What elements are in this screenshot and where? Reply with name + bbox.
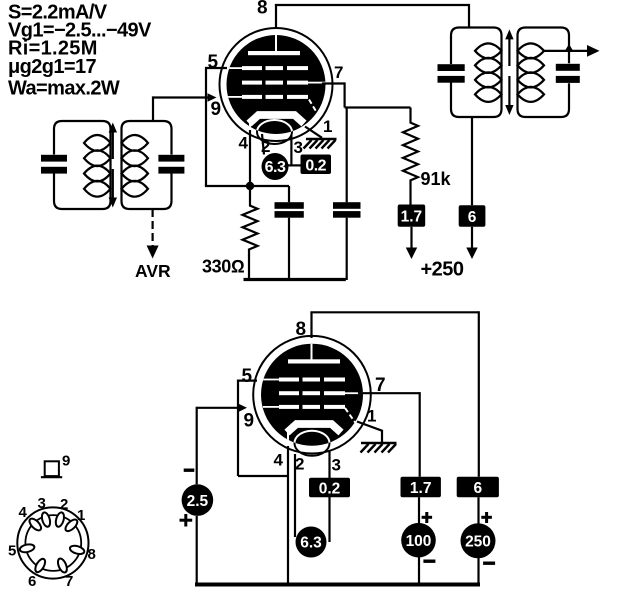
battery circle 250 [461, 523, 496, 558]
T1 tuning arrow shafts [112, 130, 114, 159]
node junction dot [246, 182, 254, 190]
wire node row to cathode junction [205, 185, 289, 187]
wire AVR dashed lead [152, 209, 154, 246]
V1 electrode disc [227, 35, 326, 134]
heater current box 0.2 (top) [301, 155, 332, 175]
wire screen supply down to 1.7 box [419, 392, 421, 477]
T1 secondary loop [122, 121, 172, 209]
svg-text:6: 6 [468, 209, 477, 226]
wire pin9 V1 from T1 tap [153, 96, 211, 98]
svg-text:6.3: 6.3 [265, 159, 286, 176]
svg-text:μg2g1=17: μg2g1=17 [8, 56, 97, 78]
svg-text:4: 4 [19, 504, 28, 521]
base pin 8 [69, 544, 85, 555]
V2 electrode disc [261, 344, 363, 446]
plus above 100 [422, 512, 433, 523]
wire pin5 vertical down [237, 380, 239, 477]
wire pin2 V2 down to 6.3 [294, 454, 296, 537]
T1 secondary capacitor plates [158, 155, 184, 162]
wire pin3 V1 down [290, 135, 292, 165]
svg-text:0.2: 0.2 [319, 480, 341, 497]
wire down into T2 primary top [468, 4, 470, 29]
wire pin8 V2 up [310, 312, 312, 338]
svg-text:0.2: 0.2 [305, 158, 326, 175]
tube base inner circle [25, 515, 81, 571]
V2 anode bar [288, 359, 340, 363]
wire T2 bottom to 6 box [471, 116, 473, 205]
V1 anode bar [248, 51, 300, 55]
V1 pin 1 lead inside (white dashes) [309, 100, 323, 124]
svg-text:1: 1 [323, 117, 332, 136]
T1 tuning arrowheads [109, 123, 117, 133]
svg-text:2: 2 [295, 455, 304, 474]
svg-text:2: 2 [60, 496, 68, 513]
T2 primary winding loops [475, 43, 502, 58]
svg-text:4: 4 [239, 134, 249, 153]
T2 output arrowhead [587, 45, 600, 57]
svg-text:3: 3 [294, 138, 303, 157]
pentode tube V1 (top) envelope [220, 28, 333, 141]
T1 primary loop [54, 121, 111, 209]
svg-text:1.7: 1.7 [401, 209, 423, 226]
wire C2 bottom lead [346, 218, 348, 280]
minus below 100 [423, 560, 435, 563]
V1 cathode [249, 115, 304, 124]
wire pin5 vertical down [205, 67, 207, 186]
svg-text:6: 6 [473, 480, 482, 497]
V2 grid row 1 dashes [279, 378, 299, 382]
svg-text:2.5: 2.5 [187, 493, 209, 510]
V2 anode stem [311, 343, 313, 361]
svg-text:8: 8 [296, 319, 307, 340]
base pin 4 [27, 517, 43, 533]
svg-text:+250: +250 [421, 259, 464, 281]
wire T2 output tap [544, 50, 591, 52]
node T2 tap junction [565, 44, 574, 52]
minus below 250 [483, 562, 495, 565]
wire pin9 arrowhead V2 [238, 404, 247, 413]
wire pin9 arrowhead [208, 93, 217, 102]
base pin 1 [19, 511, 85, 573]
minus above 2.5 [184, 469, 195, 472]
svg-text:7: 7 [65, 573, 73, 590]
T1 primary winding loops [84, 135, 111, 151]
transformer T2 (IF output, top right) [451, 28, 569, 118]
arrow below 1.7 box [410, 227, 412, 249]
base pin 7 [56, 557, 69, 574]
wire 1.7 box to 100 [418, 497, 420, 524]
V2 heater circle white inside part [295, 431, 330, 456]
voltage box 6 (top) [459, 205, 486, 227]
svg-text:1: 1 [77, 507, 85, 524]
wire 6.3 oval to 0.2 box [288, 164, 301, 166]
base pin 6 [33, 557, 47, 574]
svg-text:100: 100 [406, 533, 432, 550]
wire pin5 bottom horizontal to pin4 [238, 475, 288, 477]
V1 heater circle black outside part [257, 120, 292, 144]
svg-text:4: 4 [274, 451, 284, 470]
T2 tuning arrow shafts [508, 37, 510, 66]
wire 330 ohm bottom lead [248, 255, 250, 280]
wire T1 secondary top tap up to pin9 [152, 96, 154, 122]
voltage box 6 (bottom) [457, 477, 499, 497]
svg-text:1: 1 [367, 407, 376, 426]
wire pin9 V2 horizontal [197, 407, 238, 409]
AVR arrowhead [147, 246, 159, 259]
V1 grid row 3 stub to pin 9 [228, 96, 242, 98]
svg-text:9: 9 [244, 411, 255, 432]
svg-text:9: 9 [211, 99, 222, 120]
svg-text:1.7: 1.7 [410, 480, 432, 497]
wire pin8 V2 horizontal to right [310, 311, 478, 313]
wire pin5 V2 horizontal [238, 380, 257, 382]
svg-text:Wa=max.2W: Wa=max.2W [8, 78, 120, 100]
T2 secondary capacitor plates [556, 64, 580, 71]
wire anode supply down to 6 box [478, 311, 480, 477]
V2 grid row 2 stub to pin 7 [345, 392, 363, 394]
V2 grid row 3 stub to pin 9 [263, 406, 279, 408]
svg-text:7: 7 [334, 63, 343, 82]
V2 grid row 3 dashes [279, 405, 299, 409]
voltage box 1.7 (top) [398, 205, 426, 227]
V2 cathode [287, 424, 341, 433]
battery circle 100 [401, 523, 436, 558]
wire pin8 V1 up [275, 4, 277, 29]
V2 pin 4 lead inside [287, 429, 289, 446]
svg-text:AVR: AVR [135, 261, 171, 281]
wire C2 top lead [346, 108, 348, 203]
V1 grid row 3 dashes [242, 95, 262, 99]
capacitor C1 plates [275, 202, 304, 209]
wire pin2 V1 to 6.3 [262, 134, 264, 155]
T2 secondary winding loops [518, 43, 545, 58]
base pin 2 [54, 511, 65, 527]
plus below 2.5 [180, 514, 193, 527]
V2 heater circle black outside part [295, 431, 330, 456]
arrow below 6 box [471, 227, 473, 249]
svg-text:5: 5 [242, 366, 253, 387]
svg-text:3: 3 [332, 456, 341, 475]
svg-text:5: 5 [208, 52, 219, 73]
T1 primary capacitor plates [41, 155, 67, 162]
V1 grid row 1 stub to pin 5 [228, 67, 242, 69]
ground symbol bottom [361, 443, 397, 453]
wire top horizontal pin8 to T2 [275, 4, 469, 6]
transformer T1 (IF input, left) [54, 121, 172, 209]
wire 250 to rail [477, 557, 479, 584]
heater value oval 6.3 (top) [262, 153, 289, 180]
svg-text:3: 3 [38, 495, 46, 512]
wire grid bias down to 2.5 [196, 407, 198, 485]
tube parameter text block [8, 2, 152, 100]
wire pin4 V1 down to junction [249, 130, 251, 186]
T2 tuning arrowheads [505, 29, 513, 39]
svg-text:6: 6 [28, 573, 36, 590]
pentode tube V2 (bottom) envelope [253, 336, 371, 454]
tube base outer circle [17, 507, 88, 578]
V2 pin 1 lead inside (white dashes) [345, 408, 359, 428]
wire pin7 V1 horizontal [322, 82, 345, 84]
wire 100 to rail [418, 557, 420, 584]
svg-text:8: 8 [88, 546, 96, 563]
svg-text:330Ω: 330Ω [202, 257, 245, 277]
V2 grid row 1 stub to pin 5 [263, 379, 279, 381]
resistor 91k [403, 108, 418, 205]
V2 grid row 2 dashes [279, 391, 299, 395]
T2 primary loop [451, 28, 502, 118]
heater current box 0.2 (bottom) [309, 478, 350, 498]
ground symbol top [304, 139, 337, 149]
svg-text:91k: 91k [421, 169, 452, 189]
V1 grid row 2 dashes [242, 81, 262, 85]
V1 grid row 2 stub to pin 7 [308, 82, 326, 84]
top cap symbol (pin 9 connection) [45, 461, 59, 476]
heater voltage circle 6.3 (bottom) [296, 527, 327, 558]
svg-text:250: 250 [465, 534, 491, 551]
wire 2.5 bottom to rail [196, 516, 198, 584]
battery circle 2.5 [182, 484, 214, 516]
wire pin7 V2 horizontal [358, 392, 420, 394]
V1 heater circle white inside part [257, 120, 292, 144]
svg-text:6.3: 6.3 [300, 535, 322, 552]
V1 grid row 1 dashes [242, 66, 262, 70]
svg-text:5: 5 [8, 543, 16, 560]
wire C1 top lead from junction row [288, 186, 290, 202]
capacitor C2 plates [333, 202, 361, 209]
wire pin1 V1 to ground [305, 127, 322, 138]
wire pin7 elbow down [344, 82, 346, 107]
wire pin4 V2 down to rail [287, 446, 289, 584]
wire 6 box to 250 [477, 497, 479, 524]
voltage box 1.7 (bottom) [401, 477, 441, 497]
wire pin5 V1 horizontal [206, 67, 227, 69]
wire bottom rail of top circuit [244, 278, 346, 281]
wire pin1 V2 to ground [357, 422, 382, 443]
base pin 3 [40, 511, 51, 527]
T1 secondary winding loops [122, 135, 149, 151]
base pin 5 [19, 543, 35, 553]
wire pin7 shelf to 91k [345, 106, 411, 108]
plus above 250 [481, 512, 492, 523]
wire pin3 V2 down through 0.2 [328, 450, 330, 542]
wire C1 bottom lead [288, 218, 290, 280]
wire bottom supply rail [195, 583, 480, 587]
svg-text:8: 8 [257, 0, 268, 19]
V1 pin 4 lead inside [249, 120, 251, 132]
T2 primary capacitor plates [438, 64, 465, 71]
resistor 330 ohm [243, 186, 258, 256]
svg-text:9: 9 [62, 453, 70, 470]
T2 secondary loop [518, 28, 570, 118]
V1 anode stem (pin 8 lead inside) [275, 33, 277, 52]
